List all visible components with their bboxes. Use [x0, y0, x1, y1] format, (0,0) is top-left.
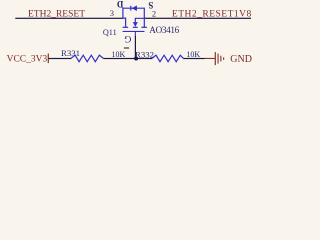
- transistor Q11 source lead: [143, 18, 145, 27]
- resistor R332 zigzag: [152, 55, 183, 62]
- transistor Q11 gate lead: [135, 32, 136, 37]
- transistor Q11 channel contact bar (drain): [123, 27, 129, 28]
- svg-text:VCC_3V3: VCC_3V3: [7, 54, 48, 64]
- transistor Q11 body diode triangle: [132, 5, 137, 11]
- pin number 1 (rotated, renders as dash): [124, 47, 129, 48]
- wire: gate vertical down to resistor junction: [135, 36, 136, 59]
- transistor Q11 body diode cathode bar: [130, 6, 131, 11]
- wire: net ETH2_RESET horizontal: [15, 18, 123, 19]
- wire: R332 to GND: [183, 58, 204, 59]
- resistor R331 zigzag: [71, 55, 103, 62]
- svg-text:10K: 10K: [112, 50, 126, 59]
- svg-text:3: 3: [110, 8, 114, 18]
- svg-text:R331: R331: [61, 48, 80, 58]
- svg-text:Q11: Q11: [103, 28, 117, 37]
- wire: net ETH2_RESET1V8 horizontal: [144, 18, 251, 19]
- svg-text:G: G: [124, 33, 131, 44]
- svg-text:AO3416: AO3416: [149, 25, 179, 35]
- wire: VCC bar to R331: [49, 58, 72, 59]
- svg-text:ETH2_RESET1V8: ETH2_RESET1V8: [172, 9, 252, 19]
- junction dot: [134, 57, 138, 61]
- transistor Q11 body-to-source connection: [135, 18, 144, 22]
- power port VCC_3V3 bar: [48, 54, 49, 64]
- transistor Q11 gate line: [123, 31, 145, 32]
- transistor Q11 body diode (anode S side, cathode D side): [123, 8, 144, 18]
- svg-text:R332: R332: [135, 49, 154, 59]
- ground bar 1: [215, 52, 216, 65]
- transistor Q11 channel contact bar (source): [141, 27, 147, 28]
- ground bar 3: [220, 56, 221, 62]
- ground bar 2: [218, 54, 219, 64]
- svg-text:10K: 10K: [186, 50, 200, 59]
- transistor Q11 drain lead jog: [123, 18, 126, 27]
- transistor Q11 body arrow head: [133, 22, 138, 27]
- svg-text:D: D: [116, 0, 123, 9]
- svg-text:2: 2: [152, 9, 156, 19]
- transistor Q11 channel contact bar (body): [133, 27, 138, 28]
- svg-text:GND: GND: [230, 54, 252, 65]
- svg-text:ETH2_RESET: ETH2_RESET: [28, 9, 85, 19]
- wire: R331 to junction to R332: [103, 58, 152, 59]
- ground bar 4: [223, 57, 224, 60]
- ground GND lead: [205, 58, 216, 59]
